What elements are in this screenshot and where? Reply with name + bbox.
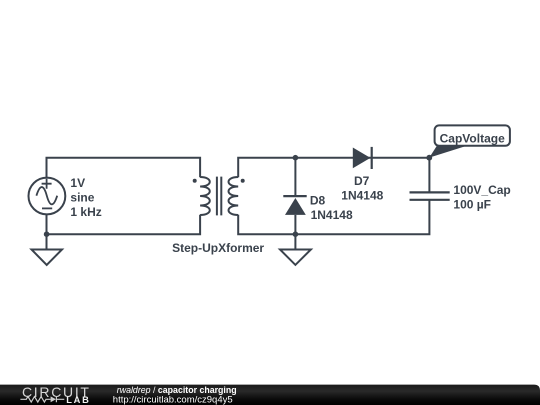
diode D8: [283, 196, 306, 215]
transformer T1 phase dots: [193, 179, 245, 183]
ground (D8): [280, 250, 311, 265]
transformer T1 core: [217, 177, 221, 216]
wire primary top rail: [47, 158, 201, 178]
svg-text:D7: D7: [354, 174, 370, 188]
diode D7: [353, 147, 372, 169]
node junction at D8 top: [293, 155, 299, 161]
svg-text:1N4148: 1N4148: [341, 189, 383, 203]
wire D8 bottom to ground: [294, 215, 296, 249]
wire capacitor branch and bottom rail: [428, 158, 430, 193]
svg-text:CapVoltage: CapVoltage: [440, 131, 505, 145]
wire primary bottom rail: [47, 215, 201, 234]
svg-text:100V_Cap: 100V_Cap: [453, 183, 510, 197]
voltage source V1: [29, 178, 66, 215]
transformer T1 primary coil: [200, 177, 210, 215]
transformer T1 secondary coil: [229, 177, 239, 215]
wire secondary top rail: [238, 158, 429, 177]
wire capacitor bottom / secondary bottom rail: [238, 200, 429, 234]
svg-text:1V: 1V: [70, 176, 85, 190]
wire source bottom to ground: [46, 214, 48, 249]
svg-text:http://circuitlab.com/cz9q4y5: http://circuitlab.com/cz9q4y5: [113, 394, 233, 405]
capacitor C1: [410, 192, 450, 199]
logo resistor-diode glyph: [20, 396, 64, 402]
svg-text:1 kHz: 1 kHz: [70, 205, 101, 219]
svg-text:100 µF: 100 µF: [453, 197, 491, 211]
svg-text:1N4148: 1N4148: [311, 208, 353, 222]
footer bar: [0, 385, 540, 405]
svg-text:Step-UpXformer: Step-UpXformer: [172, 241, 264, 255]
ground (source): [32, 250, 63, 265]
svg-text:D8: D8: [310, 193, 326, 207]
node junction at D8 bottom: [293, 231, 299, 237]
net flag CapVoltage: [426, 125, 510, 160]
node junction below source: [44, 231, 50, 237]
wire D8 branch vertical: [294, 158, 296, 196]
svg-text:sine: sine: [70, 191, 94, 205]
svg-text:LAB: LAB: [66, 395, 91, 405]
